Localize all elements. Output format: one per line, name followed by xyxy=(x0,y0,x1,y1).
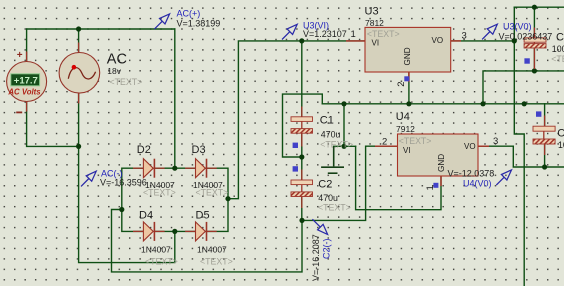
svg-text:U3(V0): U3(V0) xyxy=(503,22,532,32)
svg-text:470u: 470u xyxy=(321,129,341,139)
wire GND rail branch to ground symbol xyxy=(343,104,345,147)
svg-text:D5: D5 xyxy=(196,210,210,222)
junction node rail-right branch xyxy=(480,101,485,106)
svg-text:<TEXT>: <TEXT> xyxy=(196,187,229,197)
regulator U3 7812 xyxy=(346,6,467,87)
wire GND upper branch right xyxy=(483,71,564,104)
svg-text:1N4007: 1N4007 xyxy=(141,245,171,255)
svg-text:<TEXT>: <TEXT> xyxy=(318,203,351,213)
junction node C1 bottom xyxy=(299,154,304,159)
svg-text:+: + xyxy=(17,50,23,61)
C2 leads xyxy=(301,170,303,181)
svg-text:+17.7: +17.7 xyxy=(14,76,38,87)
diode D3 xyxy=(192,144,229,198)
svg-text:V=0.0236437: V=0.0236437 xyxy=(499,32,553,42)
svg-text:U4(V0): U4(V0) xyxy=(463,179,492,189)
D4 pins xyxy=(133,230,143,232)
junction node ground branch xyxy=(341,144,346,149)
svg-text:V=-12.0378: V=-12.0378 xyxy=(448,168,495,178)
wire C1 to C2 link xyxy=(301,133,303,180)
voltmeter pin top xyxy=(26,52,28,62)
wire +12 top feed xyxy=(514,6,564,8)
wire GND rail xyxy=(322,103,564,105)
svg-text:V=-16.2087: V=-16.2087 xyxy=(311,234,321,281)
svg-text:VI: VI xyxy=(403,146,411,155)
svg-text:18v: 18v xyxy=(107,66,121,76)
svg-text:470u: 470u xyxy=(318,193,338,203)
svg-text:<TEXT>: <TEXT> xyxy=(143,187,176,197)
svg-text:<TEXT>: <TEXT> xyxy=(551,54,564,64)
wire C2 bottom to U4 VI xyxy=(302,146,398,220)
probe AC(-) xyxy=(81,169,147,188)
svg-text:1: 1 xyxy=(351,29,356,40)
junction node rail-ground xyxy=(341,101,346,106)
svg-text:<TEXT>: <TEXT> xyxy=(320,140,353,150)
svg-text:<TEXT>: <TEXT> xyxy=(145,257,178,267)
capacitor C5 xyxy=(533,111,564,150)
wire C2 bottom lead xyxy=(301,198,303,221)
svg-text:V=-16.3596: V=-16.3596 xyxy=(100,177,147,187)
wire D3 cathode to bridge+ vertical xyxy=(206,168,228,231)
wire U4 VO path xyxy=(479,146,564,167)
junction node C2 bottom xyxy=(299,218,304,223)
probe C2(-) xyxy=(311,219,332,281)
svg-text:1N4007: 1N4007 xyxy=(197,245,227,255)
C3 leads xyxy=(533,28,535,38)
svg-text:10u: 10u xyxy=(558,140,564,150)
probe AC(+) xyxy=(154,9,220,30)
wire ground symbol link xyxy=(334,145,356,147)
junction node voltmeter bottom xyxy=(76,144,81,149)
junction node C3 bottom xyxy=(532,68,537,73)
wire AC(-) jog to negative rail xyxy=(112,210,303,272)
svg-text:VO: VO xyxy=(464,142,476,151)
C5 leads xyxy=(544,116,546,127)
wire U4 GND path xyxy=(356,146,441,209)
svg-text:V=1.38199: V=1.38199 xyxy=(177,18,221,28)
junction node D2/D3 midpoint xyxy=(172,166,177,171)
AC source pin bottom xyxy=(78,93,80,103)
junction node top xyxy=(76,26,81,31)
svg-text:U3: U3 xyxy=(365,6,379,18)
svg-text:D2: D2 xyxy=(137,144,151,156)
AC source pin top xyxy=(78,43,80,53)
junction node U3 VI / C1 xyxy=(299,38,304,43)
svg-text:GND: GND xyxy=(403,47,412,65)
probe U3(VI) xyxy=(282,20,347,39)
D3 pins xyxy=(185,167,195,169)
svg-text:1000u: 1000u xyxy=(552,44,564,54)
svg-text:D3: D3 xyxy=(192,144,206,156)
wire top AC(+) horizontal xyxy=(27,28,175,30)
wire C3 bottom lead xyxy=(533,48,535,71)
wire AC source top lead xyxy=(78,29,80,55)
wire voltmeter top lead xyxy=(26,29,28,62)
svg-text:C5: C5 xyxy=(557,128,564,140)
wire AC(+) vertical to bridge D2/D3 midpoint xyxy=(174,29,176,168)
svg-text:<TEXT>: <TEXT> xyxy=(110,77,143,87)
junction node +12 top xyxy=(532,5,537,10)
wire GND net from C1 bottom xyxy=(283,94,323,157)
junction node rail-U3GND xyxy=(406,101,411,106)
diode D5 xyxy=(196,210,233,267)
capacitor C2 xyxy=(291,166,351,212)
svg-text:7912: 7912 xyxy=(396,124,415,134)
svg-text:C1: C1 xyxy=(320,115,334,127)
wire D4 cathode to D5 anode xyxy=(155,230,196,232)
svg-text:U4: U4 xyxy=(396,111,410,123)
capacitor C3 xyxy=(524,32,564,65)
junction node bridge negative xyxy=(119,207,124,212)
svg-text:3: 3 xyxy=(493,136,498,147)
wire U3 GND pin lead xyxy=(408,72,410,104)
wire C3 top lead xyxy=(533,7,535,38)
svg-text:<TEXT>: <TEXT> xyxy=(399,136,432,146)
junction node bridge positive xyxy=(225,196,230,201)
probe U3(VO) xyxy=(482,22,552,42)
voltmeter AC Volts xyxy=(7,50,47,112)
svg-text:3: 3 xyxy=(462,31,467,42)
svg-text:C2: C2 xyxy=(318,178,332,190)
svg-text:V=1.23107: V=1.23107 xyxy=(303,29,347,39)
svg-text:C2(-): C2(-) xyxy=(322,239,332,260)
D5 pins xyxy=(185,230,195,232)
svg-text:VI: VI xyxy=(372,38,380,47)
svg-text:D4: D4 xyxy=(139,210,153,222)
svg-text:<TEXT>: <TEXT> xyxy=(200,257,233,267)
wire C5 bottom lead xyxy=(544,145,546,167)
wire U3 VO to node xyxy=(451,40,515,42)
svg-text:AC Volts: AC Volts xyxy=(7,88,41,97)
wire D2 anode branch xyxy=(122,168,144,231)
junction node C5 bottom xyxy=(542,164,547,169)
wire voltmeter bottom lead xyxy=(27,102,79,147)
wire AC source bottom lead down xyxy=(79,93,175,263)
wire bridge+ jog up to U3 VI xyxy=(228,41,365,199)
junction node rail x523 xyxy=(522,101,527,106)
svg-text:2: 2 xyxy=(396,81,407,86)
probe U4(VO) xyxy=(448,168,512,188)
ground xyxy=(321,146,344,173)
junction node U3 VO xyxy=(512,38,517,43)
svg-text:<TEXT>: <TEXT> xyxy=(367,29,400,39)
C1 leads xyxy=(301,107,303,117)
svg-text:C3: C3 xyxy=(556,32,564,44)
junction node D4/D5 midpoint xyxy=(172,229,177,234)
wire +12 vertical xyxy=(514,7,524,286)
AC source generator xyxy=(59,51,142,93)
diode D2 xyxy=(137,144,176,198)
svg-text:2: 2 xyxy=(382,137,387,148)
svg-text:AC(+): AC(+) xyxy=(177,9,201,19)
D2 pins xyxy=(133,167,143,169)
wire D2 cathode to D3 anode xyxy=(155,167,196,169)
svg-text:7812: 7812 xyxy=(365,18,384,28)
voltmeter pin bottom xyxy=(26,102,28,112)
svg-text:GND: GND xyxy=(437,154,446,172)
wire C1 top lead xyxy=(301,41,303,117)
wire C5 top lead xyxy=(544,104,546,126)
capacitor C1 xyxy=(291,115,353,150)
svg-text:VO: VO xyxy=(432,36,444,45)
diode D4 xyxy=(139,210,178,267)
regulator U4 7912 xyxy=(375,111,498,191)
svg-text:AC: AC xyxy=(107,51,127,67)
